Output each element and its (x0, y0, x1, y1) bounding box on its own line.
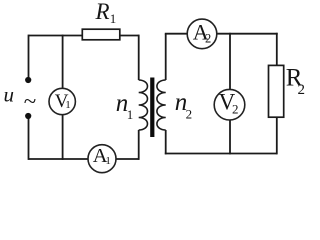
svg-text:R: R (95, 0, 110, 24)
voltmeter V2 (214, 89, 245, 120)
wire: secondary bottom lead (165, 130, 167, 154)
wire: V2 branch upper (229, 33, 231, 90)
wire: right circuit bottom wire (165, 153, 277, 155)
wire: R2 upper lead (276, 33, 278, 66)
svg-text:1: 1 (110, 11, 117, 26)
wire: source upper lead (28, 35, 30, 78)
transformer core (150, 78, 154, 138)
transformer secondary coil n2 (157, 80, 166, 130)
wire: V2 branch lower (229, 118, 231, 154)
wire: left circuit bottom wire (29, 158, 139, 160)
wire: source lower lead (28, 118, 30, 160)
wire: left circuit top wire (29, 35, 139, 37)
wire: right circuit top wire (165, 33, 278, 35)
svg-text:2: 2 (298, 82, 306, 98)
svg-text:1: 1 (105, 155, 111, 167)
node: source upper terminal (25, 77, 31, 83)
svg-text:1: 1 (127, 107, 134, 122)
wire: secondary top lead (165, 34, 167, 80)
svg-text:2: 2 (232, 102, 239, 117)
wire: R2 lower lead (276, 117, 278, 154)
ammeter A2 (187, 19, 217, 49)
svg-text:~: ~ (24, 89, 36, 114)
svg-text:1: 1 (65, 99, 71, 111)
voltmeter V1 (49, 88, 75, 114)
wire: V1 branch lower (62, 113, 64, 160)
node: source lower terminal (25, 113, 31, 119)
wire: primary top lead (138, 35, 140, 80)
wire: primary bottom lead (138, 130, 140, 160)
ammeter A1 (88, 145, 116, 173)
resistor R1 (82, 29, 120, 40)
svg-text:2: 2 (205, 31, 211, 45)
wire: V1 branch upper (62, 35, 64, 90)
svg-text:u: u (4, 83, 15, 107)
resistor R2 (269, 65, 284, 117)
svg-text:2: 2 (186, 107, 193, 122)
transformer primary coil n1 (139, 80, 148, 130)
